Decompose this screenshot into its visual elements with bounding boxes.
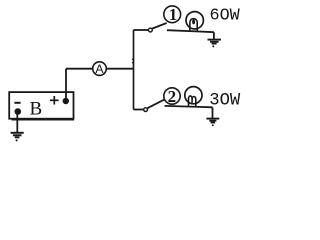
svg-text:A: A <box>95 62 104 76</box>
svg-text:6OW: 6OW <box>210 6 241 25</box>
svg-text:B: B <box>30 99 43 120</box>
svg-text:1: 1 <box>169 5 177 24</box>
svg-text:3OW: 3OW <box>209 92 241 111</box>
svg-text:2: 2 <box>168 87 177 106</box>
